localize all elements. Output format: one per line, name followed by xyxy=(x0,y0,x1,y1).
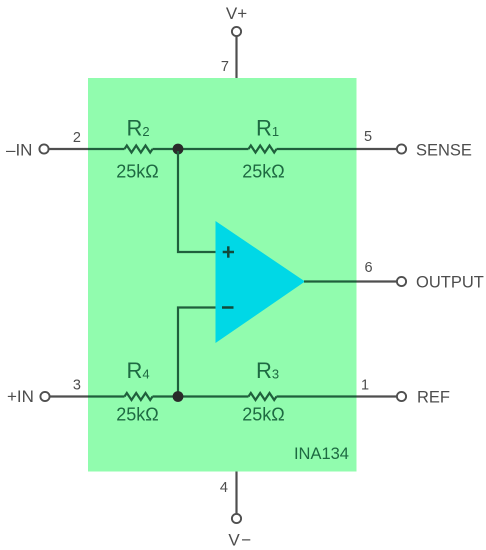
wire -IN to R2 (outside) xyxy=(49,148,88,150)
svg-text:OUTPUT: OUTPUT xyxy=(416,274,484,292)
wire R2 to R1 xyxy=(153,148,249,150)
svg-text:5: 5 xyxy=(364,129,372,145)
svg-text:25kΩ: 25kΩ xyxy=(116,405,158,425)
node A (junction R2/R1/+in) xyxy=(173,144,184,155)
resistor R2 xyxy=(125,146,153,153)
resistor R3 xyxy=(249,393,277,400)
wire R3 to REF (inside) xyxy=(277,395,357,397)
op-amp + marking xyxy=(223,246,234,257)
wire -IN to R2 (inside) xyxy=(88,148,125,150)
wire +IN to R4 (outside) xyxy=(50,395,88,397)
op-amp - marking xyxy=(222,306,234,309)
svg-text:4: 4 xyxy=(220,480,228,496)
wire R1 to SENSE (outside) xyxy=(357,148,398,150)
svg-text:2: 2 xyxy=(73,130,81,146)
terminal SENSE xyxy=(397,144,406,153)
svg-text:25kΩ: 25kΩ xyxy=(242,162,284,182)
svg-text:3: 3 xyxy=(73,378,81,394)
resistor R4 xyxy=(125,393,153,400)
wire V+ lead xyxy=(235,36,237,78)
svg-text:+IN: +IN xyxy=(7,387,34,406)
IC body (INA134 package outline) xyxy=(88,78,357,472)
svg-text:V−: V− xyxy=(228,531,252,550)
svg-text:25kΩ: 25kΩ xyxy=(242,405,284,425)
svg-text:INA134: INA134 xyxy=(294,445,349,463)
wire R4 to R3 xyxy=(153,395,249,397)
terminal REF xyxy=(397,392,406,401)
wire node B to op-amp - input xyxy=(178,308,216,395)
svg-text:1: 1 xyxy=(361,378,369,394)
wire +IN to R4 (inside) xyxy=(88,395,125,397)
wire R1 to SENSE (inside) xyxy=(277,148,357,150)
svg-text:SENSE: SENSE xyxy=(416,142,472,160)
wire node A to op-amp + input xyxy=(178,151,216,252)
wire output (inside) xyxy=(304,280,357,282)
svg-text:6: 6 xyxy=(365,260,373,276)
terminal -IN xyxy=(39,144,48,153)
wire V- lead xyxy=(235,472,237,515)
svg-text:V+: V+ xyxy=(226,4,247,23)
op-amp U1 xyxy=(216,221,306,343)
wire R3 to REF (outside) xyxy=(357,395,398,397)
wire output (outside) xyxy=(357,280,398,282)
svg-text:–IN: –IN xyxy=(6,141,32,160)
terminal OUTPUT xyxy=(397,277,406,286)
terminal V+ xyxy=(232,27,241,36)
svg-text:7: 7 xyxy=(221,59,229,75)
resistor R1 xyxy=(249,146,277,153)
node B (junction R4/R3/-in) xyxy=(173,391,184,402)
svg-text:25kΩ: 25kΩ xyxy=(116,162,158,182)
terminal +IN xyxy=(40,392,49,401)
terminal V- xyxy=(232,514,241,523)
svg-text:REF: REF xyxy=(417,389,450,407)
